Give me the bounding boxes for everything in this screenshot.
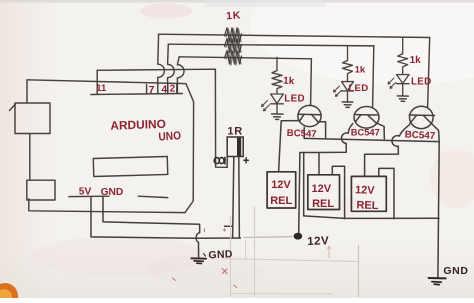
resistor R1 1K (top bus) bbox=[225, 28, 242, 42]
wire from pin 11 to resistor 1R bbox=[97, 69, 227, 167]
pin 7 riser with hop bbox=[158, 34, 165, 94]
ground symbol middle bbox=[191, 254, 206, 264]
ground vertical right bbox=[438, 142, 439, 278]
Q1 emitter diagonal bbox=[312, 115, 318, 122]
polarity scribble left of 1R bbox=[214, 157, 225, 165]
inner IC rectangle bbox=[93, 156, 167, 176]
bottom ground rail bbox=[304, 216, 439, 219]
svg-text:BC547: BC547 bbox=[404, 129, 436, 142]
pin 2 riser with hop bbox=[177, 57, 184, 94]
svg-text:12V: 12V bbox=[355, 184, 376, 197]
relay K3 12V REL box bbox=[351, 176, 386, 211]
LED3 emission arrows bbox=[388, 78, 396, 88]
LED1 ground bbox=[272, 114, 283, 120]
svg-text:GND: GND bbox=[443, 265, 468, 277]
Q2 base bar bbox=[356, 114, 377, 116]
Q2 collector diagonal bbox=[356, 115, 361, 122]
pin header line top bbox=[91, 94, 183, 95]
board edge between USB and jack bbox=[29, 134, 31, 180]
pin 4 riser with hop bbox=[168, 44, 175, 93]
svg-text:4: 4 bbox=[162, 84, 168, 95]
photo corner object bottom-left bbox=[0, 283, 18, 303]
svg-text:BC547: BC547 bbox=[287, 128, 317, 140]
Q3 emitter wire to rail corner bbox=[432, 124, 440, 142]
svg-text:ARDUINO: ARDUINO bbox=[110, 117, 166, 133]
svg-text:GND: GND bbox=[101, 187, 124, 198]
svg-text:2: 2 bbox=[170, 84, 176, 95]
Q3 collector diagonal bbox=[410, 115, 417, 123]
pin 11 riser bbox=[96, 70, 98, 94]
svg-text:11: 11 bbox=[96, 83, 107, 94]
wire segment y152 bbox=[300, 152, 319, 154]
12V node dot bbox=[294, 233, 303, 240]
svg-text:GND: GND bbox=[208, 248, 233, 261]
LED1 diode bbox=[271, 94, 284, 114]
resistor R2 1K (middle bus) bbox=[225, 38, 242, 52]
svg-text:12V: 12V bbox=[312, 183, 332, 195]
Q2 emitter wire to rail bbox=[376, 123, 384, 139]
svg-text:REL: REL bbox=[270, 195, 292, 207]
transistor Q2 BC547 circle bbox=[354, 107, 379, 129]
transistor Q1 BC547 circle bbox=[298, 105, 321, 126]
resistor R3 1K (bottom bus) bbox=[225, 51, 242, 65]
svg-text:1k: 1k bbox=[410, 55, 422, 66]
svg-text:REL: REL bbox=[312, 198, 334, 210]
svg-text:12V: 12V bbox=[307, 235, 329, 248]
LED2 column tap wire bbox=[347, 46, 349, 61]
resistor 1k of LED3 bbox=[398, 54, 408, 75]
svg-text:BC547: BC547 bbox=[351, 128, 380, 138]
svg-text:5V: 5V bbox=[79, 186, 92, 197]
5V GND header line bbox=[69, 195, 109, 197]
svg-text:7: 7 bbox=[149, 84, 155, 96]
LED2 diode bbox=[342, 82, 354, 102]
Q3 base bar bbox=[409, 114, 434, 117]
Q3 collector wire with hop to relay3 bbox=[365, 125, 410, 177]
resistor 1R lead B bbox=[238, 157, 241, 239]
USB connector box bbox=[15, 103, 50, 134]
Q3 base riser bbox=[428, 38, 430, 108]
transistor Q3 BC547 circle bbox=[410, 106, 434, 128]
pin tick bbox=[167, 84, 169, 93]
pin tick bbox=[176, 84, 178, 93]
svg-text:REL: REL bbox=[356, 199, 379, 212]
svg-text:1k: 1k bbox=[355, 64, 366, 75]
resistor 1R box bbox=[227, 137, 243, 167]
emitter ground rail bbox=[304, 138, 439, 141]
LED1 emission arrows bbox=[262, 101, 270, 111]
Q2 base riser bbox=[373, 46, 374, 107]
arduino UNO board outline bbox=[27, 80, 194, 213]
power jack box bbox=[27, 180, 55, 200]
svg-text:12V: 12V bbox=[271, 179, 291, 191]
LED3 ground bbox=[397, 96, 408, 102]
stray red marks bbox=[172, 228, 237, 287]
bus wire from pin 2 bbox=[179, 57, 311, 59]
Q1 emitter wire to rail bbox=[318, 122, 326, 139]
Q1 collector diagonal bbox=[300, 114, 304, 121]
Q1 emitter stub bbox=[303, 127, 305, 138]
relay3 right lead to ground rail bbox=[379, 168, 394, 218]
Q1 base bar bbox=[299, 113, 320, 116]
resistor 1k of LED1 bbox=[272, 71, 282, 94]
svg-text:1R: 1R bbox=[227, 126, 243, 138]
svg-text:LED: LED bbox=[348, 83, 368, 94]
faint pencil guide lines bbox=[231, 206, 255, 297]
Q3 emitter diagonal bbox=[423, 115, 431, 123]
LED3 diode bbox=[397, 75, 409, 96]
plus mark right of 1R bbox=[243, 157, 249, 163]
svg-text:LED: LED bbox=[411, 77, 432, 88]
LED3 column tap wire bbox=[402, 37, 404, 54]
Q2 emitter diagonal bbox=[368, 115, 376, 123]
resistor 1k of LED2 bbox=[343, 61, 353, 82]
svg-text:UNO: UNO bbox=[158, 130, 181, 144]
faint 12V supply line bbox=[244, 236, 293, 239]
5V wire bbox=[91, 197, 240, 239]
LED2 emission arrows bbox=[334, 86, 342, 96]
dash right of GND label bbox=[138, 196, 168, 197]
pin tick bbox=[146, 85, 148, 94]
pen tick at USB corner bbox=[10, 104, 16, 110]
relay2 right lead to ground rail bbox=[332, 166, 344, 218]
relay K2 12V REL box bbox=[308, 175, 340, 210]
svg-text:LED: LED bbox=[284, 94, 305, 105]
Q1 collector wire to relay1 bbox=[279, 121, 299, 172]
bus wire from pin 4 bbox=[168, 44, 373, 46]
LED1 column tap wire bbox=[276, 57, 278, 70]
LED2 ground bbox=[342, 102, 353, 108]
stub near lead A bbox=[225, 225, 233, 227]
ground symbol right bbox=[429, 278, 446, 285]
relay K1 12V REL box bbox=[267, 172, 296, 208]
GND wire with hop to ground bbox=[103, 196, 200, 257]
12V riser wire bbox=[299, 153, 300, 234]
svg-text:1k: 1k bbox=[283, 76, 295, 88]
Q1 base riser bbox=[310, 59, 313, 106]
resistor 1R lead A bbox=[233, 157, 234, 238]
wire to bottom rail bbox=[303, 153, 305, 216]
bus wire from pin 7 bbox=[159, 34, 430, 37]
Q2 collector wire with hop to relay2 bbox=[319, 124, 353, 175]
svg-text:1K: 1K bbox=[226, 9, 242, 22]
